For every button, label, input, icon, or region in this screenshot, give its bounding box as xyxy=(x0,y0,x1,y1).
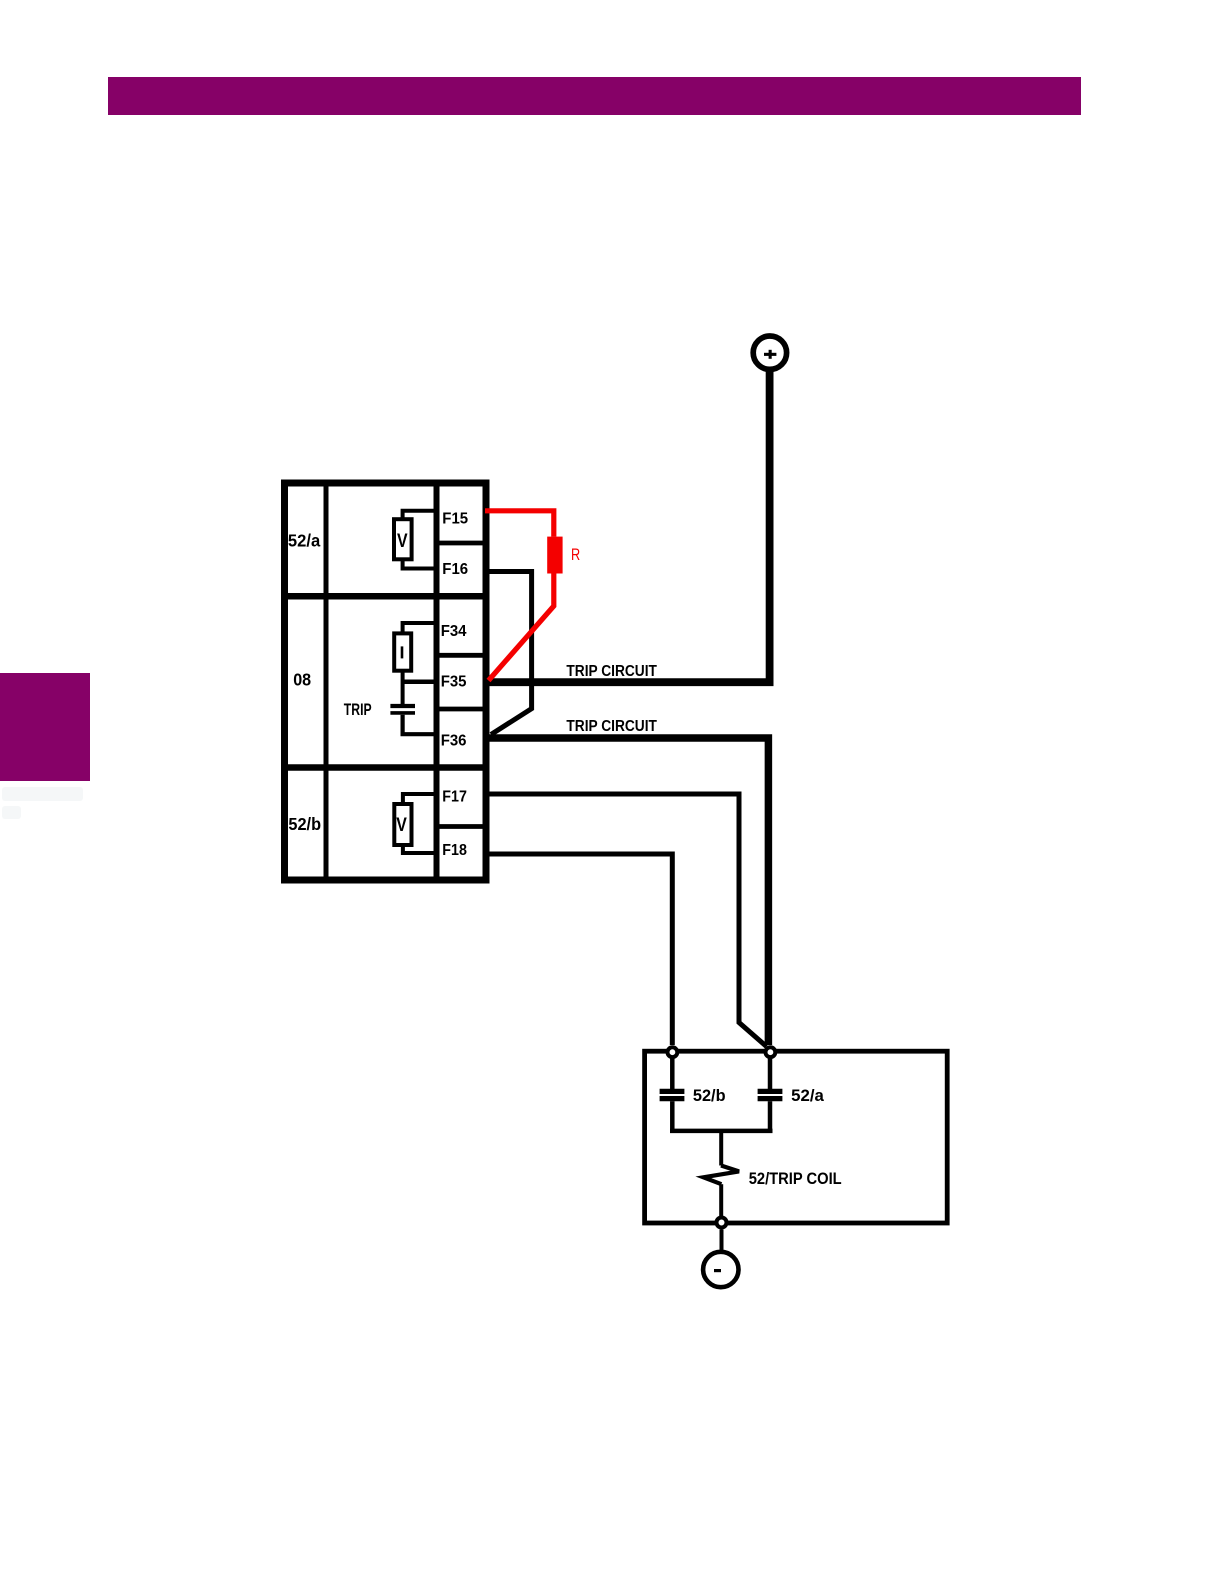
svg-text:TRIP: TRIP xyxy=(344,700,372,719)
red wire F15 to resistor R xyxy=(485,511,554,537)
svg-text:V: V xyxy=(397,531,408,552)
svg-text:52/b: 52/b xyxy=(693,1087,726,1105)
wire I to capacitor and F35 branch xyxy=(401,671,405,704)
header bar xyxy=(108,77,1081,115)
voltage element V (row 52/a) body xyxy=(394,519,412,559)
breaker box xyxy=(645,1051,948,1223)
wire node to - terminal xyxy=(720,1230,724,1251)
wire F18 to 52/b node xyxy=(485,854,672,1045)
svg-text:F35: F35 xyxy=(441,674,467,691)
wire coil to bottom node xyxy=(719,1184,723,1216)
sidebar chapter tab xyxy=(0,673,90,781)
resistor R body xyxy=(547,537,562,574)
red wire resistor R to F35 xyxy=(489,574,554,681)
voltage element V (row 52/b) body xyxy=(394,804,411,845)
wire F16 down to trip circuit line xyxy=(485,572,532,735)
svg-text:F36: F36 xyxy=(441,733,467,750)
svg-text:52/b: 52/b xyxy=(288,814,321,834)
svg-text:F18: F18 xyxy=(442,842,467,859)
terminal divider F34/F35 xyxy=(434,653,489,658)
svg-text:52/a: 52/a xyxy=(288,531,321,551)
svg-text:TRIP CIRCUIT: TRIP CIRCUIT xyxy=(566,718,657,735)
svg-text:F16: F16 xyxy=(442,561,468,578)
svg-text:TRIP CIRCUIT: TRIP CIRCUIT xyxy=(566,663,657,680)
wire F17 to 52/a node xyxy=(485,794,767,1047)
svg-text:V: V xyxy=(396,815,407,836)
trip circuit wire F36 down to 52/a contact xyxy=(485,738,768,1045)
row divider 52/a-08 xyxy=(281,593,490,600)
svg-text:F34: F34 xyxy=(441,623,467,640)
terminal divider F35/F36 xyxy=(434,707,489,712)
relay block outer case xyxy=(285,483,487,880)
svg-text:F15: F15 xyxy=(442,510,468,527)
current element I (row 08) wires xyxy=(403,623,436,633)
relay label column divider xyxy=(324,480,329,883)
voltage element V (row 52/a) wires xyxy=(403,511,436,519)
52/a contact xyxy=(768,1058,773,1090)
node 52/b terminal xyxy=(668,1047,678,1057)
wire capacitor to F36 xyxy=(403,715,436,735)
current element I body xyxy=(394,633,411,670)
trip circuit wire F35 to + supply xyxy=(485,372,770,683)
52/TRIP COIL zigzag xyxy=(703,1166,739,1185)
ghost watermark text under tab xyxy=(2,787,83,819)
svg-text:08: 08 xyxy=(293,669,311,689)
row divider 08-52/b xyxy=(281,764,490,771)
node 52/a terminal xyxy=(766,1047,776,1057)
svg-text:F17: F17 xyxy=(442,789,467,806)
svg-text:52/TRIP COIL: 52/TRIP COIL xyxy=(749,1170,842,1188)
terminal divider F17/F18 xyxy=(434,824,489,829)
contact junction wire xyxy=(670,1129,773,1134)
- supply terminal circle xyxy=(703,1252,738,1287)
svg-text:R: R xyxy=(571,546,580,564)
bottom node xyxy=(717,1218,727,1228)
wire to trip coil xyxy=(719,1131,723,1166)
trip seal-in capacitor plates xyxy=(390,704,415,708)
terminal divider F15/F16 xyxy=(434,541,489,546)
+ supply terminal circle xyxy=(753,336,786,369)
terminal column divider xyxy=(434,480,440,883)
svg-text:52/a: 52/a xyxy=(791,1087,825,1105)
52/b contact xyxy=(670,1058,675,1090)
voltage element V (row 52/b) wires xyxy=(403,794,436,804)
